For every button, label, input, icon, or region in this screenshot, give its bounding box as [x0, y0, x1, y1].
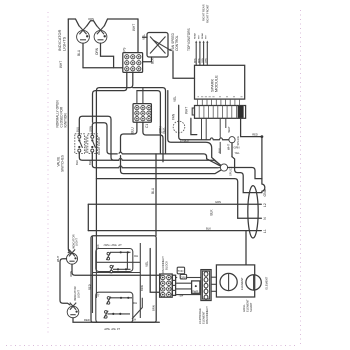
- svg-text:TB4: TB4: [178, 293, 183, 297]
- wire: L1 drop to elements: [245, 231, 247, 265]
- svg-text:LIGHT: LIGHT: [76, 290, 80, 298]
- svg-text:BRN: BRN: [195, 58, 197, 63]
- wire: switch RF bottom bus y168.2: [92, 152, 217, 168]
- valve switch right rear: [75, 134, 85, 154]
- wire: long BLU riser: [155, 154, 157, 236]
- component box with dot: [192, 281, 200, 294]
- svg-text:WHT: WHT: [59, 61, 63, 68]
- svg-text:GND: GND: [263, 188, 267, 196]
- wire: lamp A bottom ORN bus: [72, 264, 161, 275]
- wire: LT BLU path into splice 2: [168, 91, 221, 166]
- svg-text:DH: DH: [133, 301, 137, 305]
- svg-text:PWR: PWR: [192, 290, 198, 294]
- small GRN box: [180, 274, 186, 279]
- strip lower stubs: [202, 118, 226, 154]
- ignitor wire 3 with arrow: [203, 41, 205, 66]
- bake element: [220, 273, 237, 290]
- elements enclosure: [216, 265, 254, 297]
- wire: bus A east run to vertical 165.5: [133, 88, 166, 154]
- valve switch right front: [88, 134, 98, 154]
- svg-text:RIGHT FRONT: RIGHT FRONT: [205, 4, 209, 23]
- fan speed control switch: [147, 33, 172, 58]
- wire: C1 bottom to ORN/BLK drop: [143, 122, 163, 162]
- wire: fan control BLK to P9: [143, 57, 152, 62]
- svg-text:C): C): [96, 294, 100, 297]
- svg-text:L2: L2: [263, 203, 267, 207]
- wire: lamp L1 bottom lead BLU: [82, 43, 84, 67]
- spark module: [195, 65, 245, 99]
- svg-text:YEL: YEL: [235, 151, 241, 155]
- svg-text:YEL: YEL: [145, 261, 149, 267]
- oven bake switch sub-box: [96, 249, 133, 272]
- svg-text:•WS• •JN1• •JT: •WS• •JN1• •JT: [104, 243, 123, 247]
- fan motor dashed circle: [172, 113, 185, 133]
- svg-text:P9: P9: [123, 47, 127, 51]
- wire: GND route: [232, 157, 261, 193]
- svg-text:LIGHTS: LIGHTS: [62, 36, 66, 51]
- svg-text:RED: RED: [87, 284, 91, 290]
- svg-text:INDICATOR: INDICATOR: [71, 234, 75, 249]
- svg-text:SWITCHES: SWITCHES: [61, 155, 65, 172]
- svg-text:RED: RED: [84, 318, 90, 322]
- page margin dotted line left: [47, 12, 49, 333]
- svg-text:WHT: WHT: [185, 107, 189, 114]
- wire: fan motor vertical through to WHT bus: [179, 105, 229, 140]
- svg-text:SPLICE: SPLICE: [236, 136, 240, 146]
- ignitor wire 2 with arrow: [199, 41, 201, 66]
- svg-text:REAR: REAR: [194, 33, 197, 39]
- indicator lamp L1: [77, 26, 90, 43]
- page margin dotted line right: [300, 10, 302, 345]
- svg-text:BLK: BLK: [75, 160, 79, 165]
- wire: lamp L2 bottom lead ORN: [101, 43, 114, 67]
- clock TOD box: [177, 267, 184, 274]
- svg-text:ELEMENT: ELEMENT: [264, 276, 268, 289]
- wire: L2 bus y204.2: [88, 203, 261, 205]
- wire: oven lamp feed from WHT bus: [67, 252, 69, 254]
- console inner right vertical: [139, 243, 141, 318]
- svg-text:BLU: BLU: [77, 49, 81, 56]
- svg-text:CARTRIDGE: CARTRIDGE: [198, 308, 202, 324]
- wire: row1 to row2 link: [126, 252, 128, 269]
- wire: switch RF top riser and bus y122: [92, 123, 220, 166]
- oven broil switch sub-box: [96, 292, 133, 322]
- wire: bus y178.6 to N drop: [96, 179, 237, 219]
- wire: P9 bottom to C1 top bus B: [93, 72, 127, 122]
- grill element: [246, 275, 261, 290]
- indicator lamp L2: [94, 26, 107, 43]
- svg-text:LIGHT: LIGHT: [75, 238, 79, 246]
- page margin dotted line bottom: [6, 345, 298, 347]
- wire: C1 top feeds: [136, 91, 138, 104]
- svg-text:BLK: BLK: [217, 148, 221, 153]
- svg-text:DISCONNECT: DISCONNECT: [161, 256, 165, 274]
- svg-text:BRN: BRN: [198, 58, 200, 63]
- svg-text:ORN: ORN: [206, 58, 208, 63]
- wire: switch RR bottom bus y160.7: [79, 152, 214, 160]
- svg-text:BRN: BRN: [151, 305, 155, 311]
- wire: L1 bus y230.6: [88, 230, 261, 232]
- svg-text:GRN: GRN: [215, 200, 221, 204]
- wire: top bus with lamp arcs: [68, 19, 79, 26]
- wire: RED from strip black cell to terminal: [241, 118, 261, 136]
- wire: N run: [238, 217, 262, 219]
- wire: bus B east run to vertical 160.4: [137, 91, 161, 154]
- wire: horizontal into P9 block: [83, 67, 123, 69]
- disconnect block mating half: [172, 275, 175, 295]
- wires connector to elements: [211, 276, 216, 278]
- svg-text:GRN: GRN: [234, 145, 240, 149]
- wire: grounding conductor with curl: [262, 137, 265, 193]
- wire: lamp B bottom to RED bus: [73, 318, 159, 322]
- svg-text:WHT: WHT: [226, 144, 230, 150]
- wire: strip to chassis left drop: [191, 118, 197, 134]
- console mid divider wires: [96, 261, 140, 263]
- wire: WHT drop to P9 right column: [137, 19, 139, 53]
- wire: P9 to fan control YEL: [143, 36, 147, 38]
- cartridge element connector: [201, 270, 211, 301]
- connector block P9: [123, 53, 143, 73]
- oven switch row 2: [109, 265, 130, 273]
- svg-text:C1: C1: [145, 124, 149, 128]
- wire: C1 BLU drop to bus y173.6: [121, 122, 221, 173]
- svg-text:INDICATOR: INDICATOR: [73, 286, 77, 301]
- svg-text:BLOCK: BLOCK: [165, 261, 169, 270]
- svg-text:DH: DH: [134, 254, 138, 258]
- svg-text:WHT: WHT: [227, 126, 231, 132]
- svg-text:RIGHT REAR: RIGHT REAR: [202, 4, 206, 21]
- svg-text:CONTROL: CONTROL: [175, 35, 179, 51]
- svg-text:TOD: TOD: [178, 269, 184, 273]
- console inner left verticals: [92, 236, 94, 313]
- terminal dot RED: [261, 135, 264, 138]
- spark module connector strip: [192, 106, 245, 119]
- spark module pins to connector strip: [198, 99, 240, 105]
- svg-text:FRT: FRT: [198, 34, 200, 39]
- spark module bottom pin labels: [198, 96, 243, 98]
- wire: lamp A left lead to lamp B: [60, 259, 70, 305]
- splice 1: [227, 126, 240, 145]
- svg-text:ORN: ORN: [202, 58, 204, 63]
- wire: splice1 drop: [231, 143, 233, 157]
- connector block C1: [133, 104, 151, 123]
- svg-text:ELEMENT: ELEMENT: [245, 299, 249, 312]
- svg-text:BLK: BLK: [206, 226, 211, 230]
- splice 2: [220, 164, 232, 176]
- indicator lamp oven (A): [67, 249, 78, 264]
- svg-text:ELEMENT: ELEMENT: [240, 277, 244, 290]
- wire: fan control to spark module: [173, 52, 195, 79]
- svg-text:ORN: ORN: [88, 17, 94, 21]
- indicator lamp clock (B): [67, 303, 79, 318]
- ignitor wire 4 with arrow: [206, 41, 208, 66]
- oven switch row 1: [106, 251, 138, 260]
- svg-text:WHT: WHT: [56, 256, 60, 262]
- svg-text:IGNITION: IGNITION: [64, 113, 68, 128]
- svg-text:BLK: BLK: [162, 127, 166, 134]
- svg-text:YEL: YEL: [173, 96, 177, 102]
- ignitor wire 1 with arrow: [195, 41, 197, 66]
- svg-text:LT BLU: LT BLU: [180, 138, 189, 142]
- wire: console staircase to disconnect: [132, 298, 142, 319]
- svg-text:BLU: BLU: [151, 187, 155, 194]
- svg-text:BRN: BRN: [140, 285, 144, 291]
- wire: switch RR top riser and bus y116: [79, 116, 119, 160]
- power cord grommet ellipse: [248, 186, 258, 238]
- wires disconnect to cartridge connector: [187, 277, 201, 279]
- svg-text:REAR: REAR: [201, 33, 204, 39]
- svg-text:GRN: GRN: [181, 275, 187, 279]
- control console outline: [91, 236, 156, 322]
- svg-text:TOP IGNITORS: TOP IGNITORS: [187, 28, 191, 51]
- svg-text:C4: C4: [96, 244, 100, 248]
- wire: WHT neutral bus left vertical: [68, 19, 70, 253]
- svg-text:•WS• •JN• 3T: •WS• •JN• 3T: [104, 327, 120, 331]
- svg-text:WHT: WHT: [132, 24, 136, 31]
- wire: console right YEL riser: [150, 249, 159, 293]
- svg-text:ORN: ORN: [95, 47, 99, 55]
- svg-text:MODULE: MODULE: [215, 75, 219, 92]
- svg-text:FRT: FRT: [206, 34, 208, 39]
- svg-text:RIGHT FRONT: RIGHT FRONT: [97, 136, 101, 155]
- wire: splice2 east staircase: [228, 168, 262, 179]
- wire: fan-in diagonals to splice2: [214, 160, 221, 165]
- oven switch row 4: [104, 311, 136, 322]
- svg-text:DISCONNECT: DISCONNECT: [205, 306, 209, 324]
- svg-text:FAN: FAN: [172, 113, 176, 120]
- svg-text:BLU: BLU: [130, 127, 134, 134]
- svg-text:ORN: ORN: [69, 271, 73, 277]
- svg-text:ELEMENT: ELEMENT: [202, 311, 206, 324]
- svg-text:BLK: BLK: [210, 209, 214, 216]
- svg-text:RED: RED: [252, 133, 258, 137]
- svg-text:GRILL: GRILL: [242, 304, 246, 312]
- svg-text:L1: L1: [263, 229, 267, 233]
- wire: P9 bottom to C1 top bus A: [96, 72, 132, 235]
- oven switch row 3: [107, 297, 138, 305]
- wire: left riser L2-L1: [87, 204, 89, 230]
- disconnect block terminals: [160, 274, 173, 297]
- svg-text:SHUNT: SHUNT: [249, 302, 253, 312]
